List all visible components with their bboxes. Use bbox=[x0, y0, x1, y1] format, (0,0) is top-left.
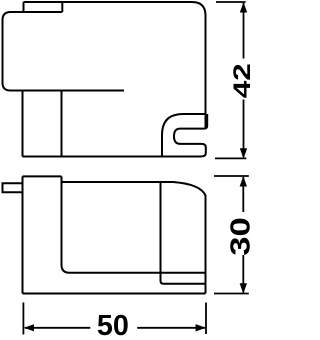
dimension 50: right arrowhead bbox=[196, 324, 206, 331]
dimension 42: up arrowhead bbox=[240, 2, 247, 12]
dimension 42: top extension tick bbox=[216, 1, 246, 3]
dimension 42: down arrowhead bbox=[240, 148, 247, 158]
svg-text:42: 42 bbox=[229, 63, 252, 98]
dimension 50: left extension tick bbox=[22, 303, 24, 335]
bottom view: bottom edge bbox=[23, 293, 206, 295]
bottom view: leg left vertical / left edge bbox=[22, 176, 24, 293]
bottom view: leg right vertical with corner into internal line L1 bbox=[62, 176, 206, 272]
dimension 42: vertical dimension line upper segment bbox=[243, 3, 245, 59]
dimension 30: top extension tick bbox=[214, 175, 249, 177]
bottom view: left tab bbox=[3, 183, 23, 192]
dimension 30: vertical dimension line upper segment bbox=[242, 177, 244, 212]
dimension 30: down arrowhead bbox=[240, 283, 247, 293]
svg-text:50: 50 bbox=[97, 310, 129, 340]
top view: bottom edge bbox=[23, 156, 202, 158]
dimension 30: bottom extension tick bbox=[214, 293, 249, 295]
dimension 50: right extension tick bbox=[205, 303, 207, 335]
top view: lower top edge with rounded top-left corner and left edge bbox=[3, 12, 125, 91]
dimension 50: horizontal dimension line right segment bbox=[137, 327, 205, 329]
top view: leg left vertical bbox=[22, 91, 24, 157]
top view: main outline top edge with rounded top-right corner and right edge bbox=[24, 2, 206, 129]
bottom view: main top edge curving into right edge bbox=[62, 182, 206, 294]
top view: hook outer arch bbox=[162, 114, 206, 157]
top view: boss notch right vertical bbox=[61, 2, 63, 12]
top view: hook inner slot and tongue with rounded cap bbox=[174, 114, 207, 156]
dimension 42: vertical dimension line lower segment bbox=[243, 100, 245, 158]
top view: boss notch left vertical bbox=[23, 2, 25, 12]
dimension 42: bottom extension tick bbox=[215, 157, 246, 159]
svg-text:30: 30 bbox=[224, 217, 252, 256]
dimension 50: left arrowhead bbox=[24, 324, 34, 331]
bottom view: internal vertical with corner into internal line L2 bbox=[161, 182, 206, 284]
top view: leg right vertical bbox=[61, 91, 63, 157]
bottom view: leg top edge bbox=[23, 175, 62, 177]
dimension 30: up arrowhead bbox=[240, 176, 247, 186]
dimension 30: vertical dimension line lower segment bbox=[242, 255, 244, 293]
dimension 50: horizontal dimension line left segment bbox=[25, 327, 91, 329]
